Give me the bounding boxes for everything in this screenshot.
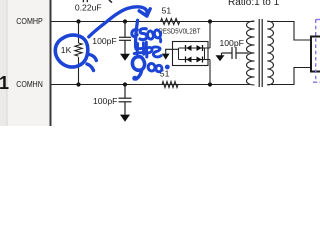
blue swoosh arrow shaft bbox=[89, 7, 147, 37]
stub of cut-off capacitor plate left bbox=[82, 0, 84, 2]
blue scribble ring tail bbox=[136, 71, 141, 79]
svg-text:1K: 1K bbox=[61, 45, 72, 55]
svg-text:100pF: 100pF bbox=[93, 96, 117, 106]
blue scribble H crossbar bbox=[136, 47, 145, 51]
blue comma 2 bbox=[87, 64, 94, 71]
svg-text:100pF: 100pF bbox=[92, 36, 116, 46]
resistor R1 1K (vertical) bbox=[75, 22, 82, 85]
wire secondary top to connector bbox=[267, 22, 311, 41]
blue scribble tail blob bbox=[132, 76, 137, 81]
ESD diode array U1 box bbox=[173, 42, 209, 66]
node junction 1K bottom bbox=[76, 82, 80, 86]
blue scribble ring oo 1 bbox=[148, 63, 155, 70]
node junction ESD top bbox=[208, 19, 212, 23]
diode D3 bottom-left bbox=[186, 57, 192, 63]
ESD ground wire bbox=[166, 49, 179, 54]
ESD left rail bbox=[178, 48, 180, 60]
svg-text:51: 51 bbox=[162, 5, 172, 15]
blue scribble h bowl bbox=[147, 47, 152, 52]
blue scribble H left stem bbox=[136, 44, 139, 54]
ground arrow C3 bbox=[216, 55, 225, 61]
ESD internal bottom branch bbox=[179, 59, 211, 61]
svg-text:0.22uF: 0.22uF bbox=[75, 2, 102, 12]
wire secondary bottom to connector bbox=[267, 68, 311, 85]
blue scribble z-loop glyph bbox=[152, 47, 162, 57]
IC body fill bbox=[8, 0, 51, 126]
blue scribble 5 bbox=[140, 29, 147, 40]
transformer T1 primary winding bbox=[247, 21, 255, 85]
diode D2 top-right bbox=[197, 45, 203, 51]
capacitor C3 100pF centre tap bbox=[222, 47, 249, 59]
capacitor C2 100pF bbox=[119, 85, 132, 115]
IC right edge bbox=[50, 0, 52, 126]
svg-text:COMHP: COMHP bbox=[16, 16, 43, 26]
blue scribble ring oo 2 bbox=[156, 65, 162, 71]
blue scribble h stem bbox=[145, 42, 148, 55]
dashed highlight box (purple) bbox=[316, 19, 320, 21]
svg-text:1: 1 bbox=[0, 73, 9, 93]
blue circle around 1K bbox=[55, 35, 88, 67]
left page margin strip bbox=[0, 0, 7, 126]
transformer T1 secondary winding bbox=[267, 21, 273, 85]
node junction 1K top bbox=[76, 19, 80, 23]
ESD internal top branch bbox=[179, 47, 211, 49]
svg-text:Ratio:1 to 1: Ratio:1 to 1 bbox=[228, 0, 280, 8]
blue scribble loop of 9 bbox=[132, 29, 137, 36]
blue scribble 0 with flourish bbox=[154, 30, 160, 42]
blue scribble stem of 9 bbox=[136, 20, 138, 47]
svg-text:RESD5V0L2BT: RESD5V0L2BT bbox=[159, 29, 202, 36]
wire ESD bottom pin to bottom rail bbox=[209, 60, 211, 85]
diode D1 top-left bbox=[186, 45, 192, 51]
blue arrowhead barb left bbox=[139, 11, 147, 16]
svg-text:COMHN: COMHN bbox=[16, 79, 43, 89]
capacitor C1 100pF bbox=[119, 22, 131, 55]
stub of cut-off capacitor plate right bbox=[86, 0, 88, 2]
node junction C2 bottom bbox=[123, 82, 127, 86]
page background bbox=[0, 0, 320, 126]
resistor R3 51 (bottom) bbox=[162, 82, 178, 88]
blue annotations bbox=[55, 7, 169, 81]
svg-text:100pF: 100pF bbox=[220, 38, 244, 48]
blue dot right bbox=[165, 65, 170, 70]
diode D4 bottom-right bbox=[197, 57, 203, 63]
ground arrow C2 bbox=[120, 115, 130, 122]
ground arrow ESD bbox=[162, 54, 170, 60]
connector J1 box bbox=[311, 37, 320, 72]
blue scribble H right stem bbox=[142, 43, 145, 54]
ESD right rail bbox=[204, 48, 206, 60]
transformer core bbox=[258, 19, 260, 87]
blue comma 1 bbox=[90, 55, 97, 61]
stub of cut-off symbol top bbox=[109, 0, 112, 3]
blue scribble gamma bar bbox=[134, 53, 147, 57]
wire COMHN bottom rail bbox=[52, 84, 251, 86]
blue arrowhead barb right bbox=[147, 9, 150, 16]
ground arrow C1 bbox=[120, 54, 130, 61]
node junction C1 top bbox=[123, 19, 127, 23]
wire COMHP top rail bbox=[52, 21, 255, 23]
resistor R2 51 (top) bbox=[161, 19, 180, 25]
blue scribble big ring bbox=[132, 57, 144, 71]
wire ESD top pin to top rail bbox=[209, 22, 211, 49]
blue scribble 0 bbox=[148, 31, 154, 39]
node junction ESD bottom bbox=[208, 82, 212, 86]
